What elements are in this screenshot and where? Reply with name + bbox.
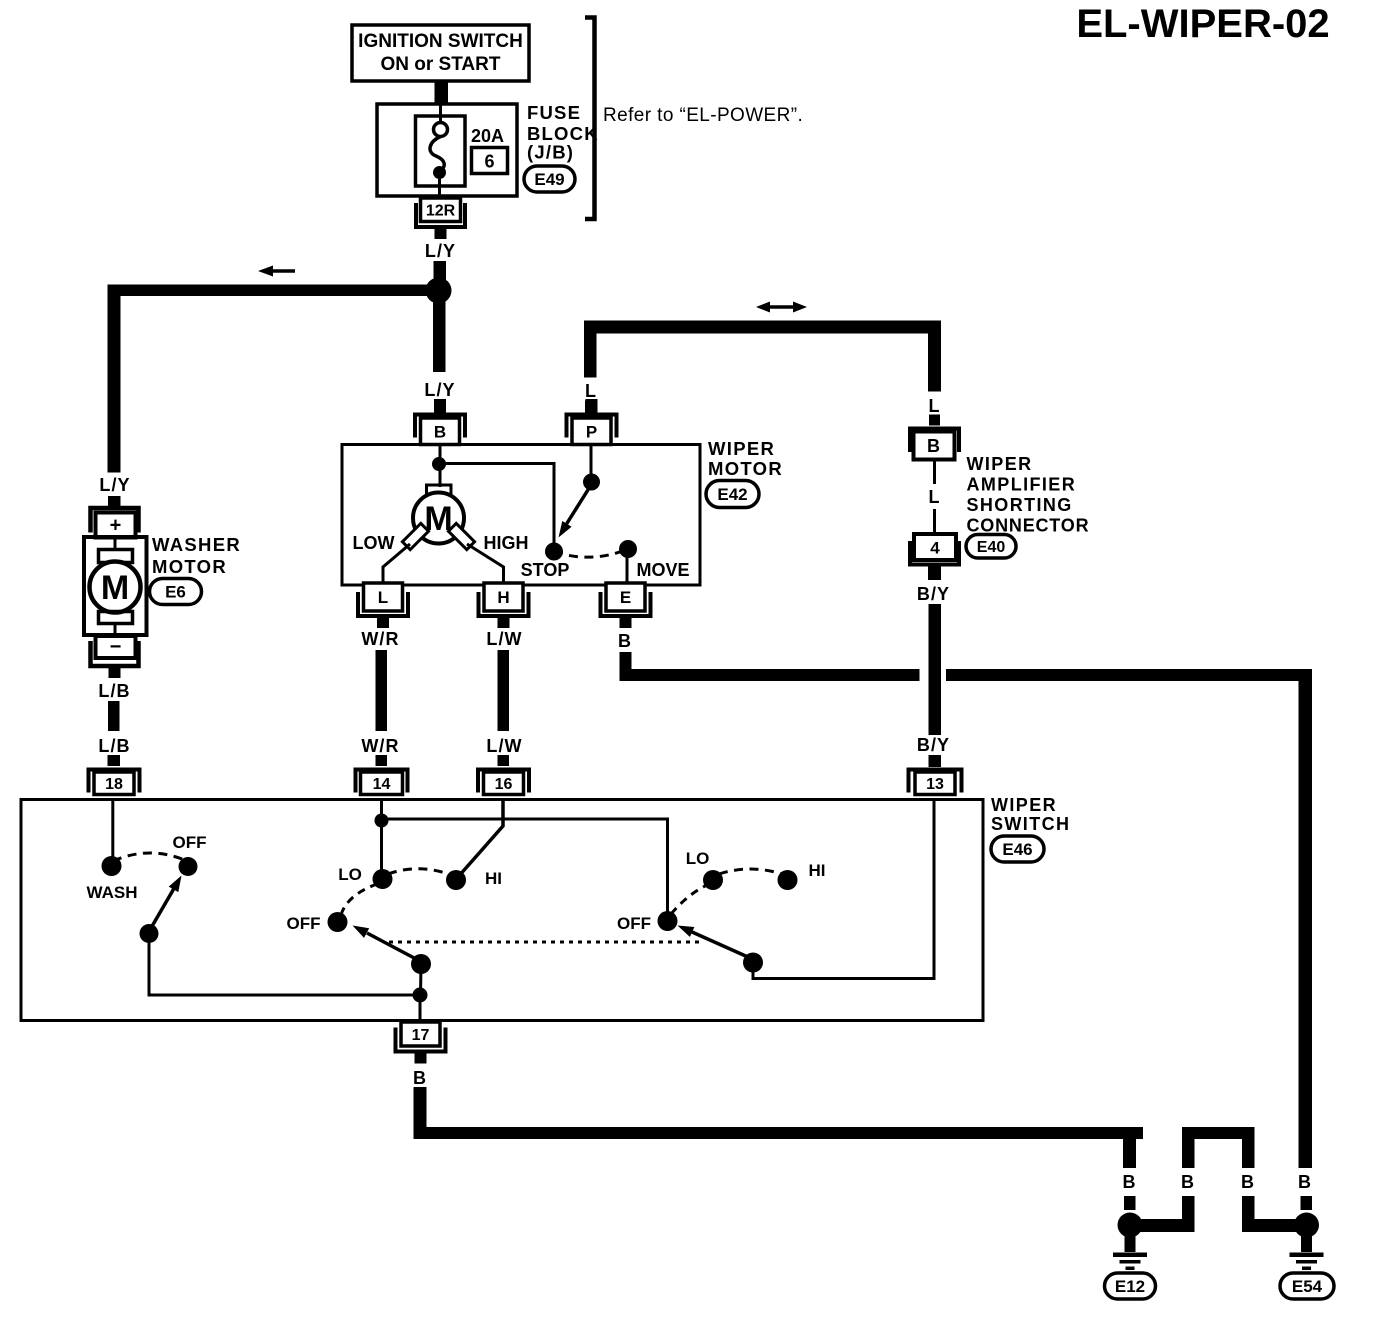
svg-text:IGNITION SWITCH: IGNITION SWITCH [358, 31, 523, 52]
contact WASH [102, 856, 122, 876]
connector oval E6 [150, 579, 202, 605]
fuse number 6 box [472, 148, 508, 174]
svg-text:W/R: W/R [361, 736, 399, 756]
svg-text:13: 13 [926, 776, 944, 793]
connector 12R [416, 198, 465, 239]
svg-text:L/B: L/B [98, 681, 130, 701]
svg-text:CONNECTOR: CONNECTOR [967, 516, 1090, 536]
wire B/Y shorting connector to connector 13 [917, 584, 950, 767]
svg-text:OFF: OFF [173, 833, 207, 852]
svg-text:E46: E46 [1002, 840, 1032, 859]
connector oval E40 [966, 535, 1016, 559]
connector oval E49 [524, 166, 575, 192]
dashed arc OFF to LO pole2 [671, 885, 707, 914]
svg-text:B: B [927, 436, 941, 456]
wire B drop 3 [1241, 1172, 1300, 1232]
wire L/Y fuse to junction [425, 241, 456, 285]
label STOP [521, 560, 570, 580]
wire ignition switch to fuse block [435, 80, 449, 105]
junction node to 17 [413, 988, 428, 1021]
svg-text:WASH: WASH [87, 883, 138, 902]
svg-text:E49: E49 [534, 170, 564, 189]
svg-text:HIGH: HIGH [484, 533, 529, 553]
svg-text:LO: LO [686, 849, 710, 868]
svg-text:E42: E42 [717, 485, 747, 504]
connector oval E12 [1105, 1273, 1156, 1299]
connector 13 [909, 770, 962, 795]
svg-text:FUSE: FUSE [527, 102, 581, 123]
svg-text:B: B [1181, 1172, 1195, 1192]
connector oval E46 [991, 836, 1044, 862]
svg-text:16: 16 [495, 776, 513, 793]
connector 18 [89, 770, 140, 795]
connector H wiper motor [479, 583, 529, 628]
wiper switch label [991, 795, 1070, 834]
wire 16 to HI contact [458, 800, 503, 878]
fuse 20A symbol [416, 104, 466, 200]
svg-text:WIPER: WIPER [991, 795, 1057, 815]
svg-text:B: B [1122, 1172, 1136, 1192]
dashed arc LO to HI pole2 [719, 869, 782, 874]
svg-text:LOW: LOW [353, 533, 395, 553]
wire L/Y horizontal to washer motor [108, 285, 439, 473]
svg-text:MOTOR: MOTOR [708, 458, 783, 479]
double arrow [756, 302, 807, 313]
wire L shorting connector [928, 459, 940, 534]
label L at shorting connector [928, 396, 940, 426]
wire pole1 arm to node [419, 964, 423, 995]
svg-text:B/Y: B/Y [917, 584, 950, 604]
fuse block box E49 [377, 104, 517, 196]
svg-text:HI: HI [809, 861, 826, 880]
label LO pole2 [686, 849, 710, 868]
wire B from 17 [413, 1068, 1143, 1139]
ignition switch box [352, 25, 529, 81]
svg-text:4: 4 [930, 539, 940, 558]
svg-text:WIPER: WIPER [967, 454, 1033, 474]
arrow left [258, 266, 295, 277]
svg-text:E: E [620, 588, 631, 607]
wire L wiper motor P to shorting connector [584, 321, 941, 392]
connector 4 shorting connector [910, 534, 959, 580]
washer switch arm [140, 876, 182, 944]
connector 17 [396, 1022, 446, 1064]
svg-text:L/W: L/W [486, 629, 522, 649]
svg-text:L/Y: L/Y [99, 475, 130, 495]
label HIGH [484, 533, 529, 553]
wire L/Y vertical to B connector [424, 296, 455, 400]
label OFF pole1 [287, 914, 321, 933]
label HI pole1 [485, 869, 502, 888]
svg-text:LO: LO [338, 865, 362, 884]
svg-text:L/Y: L/Y [425, 241, 456, 261]
contact OFF washer [179, 857, 198, 876]
label LO pole1 [338, 865, 362, 884]
contact HI pole2 [778, 870, 798, 890]
svg-text:6: 6 [484, 152, 494, 172]
svg-text:B: B [1298, 1172, 1312, 1192]
svg-text:12R: 12R [426, 203, 456, 220]
svg-text:B: B [413, 1068, 427, 1088]
svg-text:+: + [110, 515, 122, 537]
fuse block label [527, 102, 599, 163]
mechanical link dotted line [389, 941, 700, 944]
svg-text:B: B [1241, 1172, 1255, 1192]
wire L/W H to 16 [486, 629, 522, 766]
svg-text:20A: 20A [471, 126, 504, 146]
svg-text:E12: E12 [1115, 1277, 1145, 1296]
svg-text:17: 17 [412, 1027, 430, 1044]
connector B shorting connector [910, 429, 959, 460]
wire washer arm to node [149, 934, 420, 996]
wiper motor park switch [545, 445, 637, 586]
svg-text:L: L [928, 396, 940, 416]
wiper switch box E46 [21, 800, 983, 1021]
label LOW [353, 533, 395, 553]
wire 14 to LO contact [380, 800, 383, 873]
svg-text:E54: E54 [1292, 1277, 1323, 1296]
washer motor label [152, 534, 241, 577]
wiper amplifier label [967, 454, 1090, 536]
svg-text:18: 18 [105, 776, 123, 793]
svg-text:E40: E40 [977, 539, 1006, 556]
contact LO pole2 [703, 870, 723, 890]
svg-text:L/Y: L/Y [424, 380, 455, 400]
wire B drop 1 [1122, 1139, 1136, 1210]
ground symbol E54 [1290, 1236, 1324, 1270]
svg-text:MOVE: MOVE [636, 560, 689, 580]
washer motor E6 [84, 496, 147, 678]
wire label L/Y at washer motor [99, 475, 130, 495]
svg-text:L: L [928, 487, 940, 507]
fuse value 20A [471, 126, 504, 146]
svg-text:L: L [585, 381, 597, 401]
svg-text:HI: HI [485, 869, 502, 888]
wire 18 to WASH contact [111, 800, 114, 859]
svg-text:L/W: L/W [486, 736, 522, 756]
svg-text:WIPER: WIPER [708, 438, 775, 459]
svg-text:B: B [434, 422, 446, 441]
contact OFF pole1 [328, 912, 348, 932]
label MOVE [636, 560, 689, 580]
note refer to EL-POWER [603, 105, 803, 126]
junction node under 14 [375, 814, 389, 828]
junction node L/Y [426, 278, 452, 304]
dashed arc LO to HI pole1 [388, 869, 451, 875]
contact LO pole1 [373, 869, 393, 889]
svg-text:W/R: W/R [361, 629, 399, 649]
svg-text:L/B: L/B [98, 736, 130, 756]
wire B drop 4 [1298, 1172, 1312, 1210]
U link wires [1182, 1127, 1255, 1168]
wire L/B washer motor to connector 18 [98, 681, 130, 766]
label OFF washer [173, 833, 207, 852]
svg-text:P: P [586, 422, 597, 441]
contact HI pole1 [446, 870, 466, 890]
dashed arc OFF to LO pole1 [341, 884, 377, 915]
svg-text:B/Y: B/Y [917, 735, 950, 755]
svg-text:B: B [618, 631, 632, 651]
title EL-WIPER-02 [1076, 2, 1329, 46]
svg-text:EL-WIPER-02: EL-WIPER-02 [1076, 2, 1329, 46]
connector B wiper motor [415, 399, 465, 445]
svg-text:OFF: OFF [287, 914, 321, 933]
ground node E12 [1118, 1213, 1143, 1238]
label L at P connector [585, 381, 597, 413]
svg-text:−: − [110, 636, 122, 658]
svg-text:OFF: OFF [617, 914, 651, 933]
connector E wiper motor [601, 583, 651, 628]
wiper motor label [708, 438, 783, 479]
svg-text:M: M [101, 569, 129, 607]
dashed arc WASH to OFF [113, 853, 187, 861]
contact OFF pole2 [658, 911, 678, 931]
wire node 14 to OFF right pole [382, 819, 668, 913]
ground symbol E12 [1113, 1236, 1147, 1270]
label WASH [87, 883, 138, 902]
ground node E54 [1294, 1213, 1319, 1238]
wire W/R L to 14 [361, 629, 399, 766]
svg-text:E6: E6 [165, 583, 186, 602]
connector oval E54 [1280, 1273, 1334, 1299]
connector oval E42 [706, 481, 759, 508]
svg-text:SHORTING: SHORTING [967, 495, 1073, 515]
label OFF pole2 [617, 914, 651, 933]
wire B from E to right rail [618, 631, 1312, 1168]
svg-text:SWITCH: SWITCH [991, 814, 1070, 834]
svg-text:L: L [378, 588, 388, 607]
pole1 arm [353, 926, 432, 975]
connector P wiper motor [567, 399, 617, 445]
wire pole2 arm to 13 [753, 800, 934, 979]
pole2 arm [678, 926, 764, 973]
wire B drop 2 [1136, 1172, 1195, 1232]
svg-text:H: H [497, 588, 509, 607]
connector 14 [356, 770, 408, 795]
connector L wiper motor [358, 583, 408, 628]
wiper motor box E42 [342, 445, 700, 586]
connector 16 [478, 770, 529, 795]
wiper motor internal M [383, 445, 554, 586]
bracket refer to EL-POWER [585, 18, 595, 220]
svg-text:14: 14 [373, 776, 391, 793]
svg-text:WASHER: WASHER [152, 534, 241, 555]
svg-text:ON or START: ON or START [381, 54, 501, 75]
svg-text:AMPLIFIER: AMPLIFIER [967, 475, 1077, 495]
svg-text:MOTOR: MOTOR [152, 556, 227, 577]
svg-text:Refer to “EL-POWER”.: Refer to “EL-POWER”. [603, 105, 803, 126]
svg-text:STOP: STOP [521, 560, 570, 580]
svg-text:(J/B): (J/B) [527, 142, 574, 163]
label HI pole2 [809, 861, 826, 880]
